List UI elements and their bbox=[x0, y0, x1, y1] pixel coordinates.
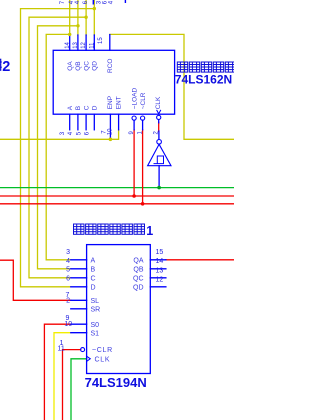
reg pin 6 D stub bbox=[71, 286, 87, 288]
wire vertical to top edge pin QC bbox=[85, 0, 87, 35]
svg-text:QB: QB bbox=[75, 61, 82, 70]
reg pin 12 QD stub bbox=[150, 286, 166, 288]
reg pin 11 CLK marker bbox=[87, 356, 91, 361]
op U2 74LS162N body bbox=[53, 50, 174, 114]
svg-text:74LS162N: 74LS162N bbox=[175, 72, 232, 86]
wire S0 net (red) bbox=[44, 324, 70, 420]
counter pin labels (rotated) bbox=[67, 59, 162, 111]
wire ENP/ENT enable net (yellow) bbox=[0, 138, 110, 140]
svg-text:A: A bbox=[67, 105, 74, 110]
wire RCO net (yellow) bbox=[110, 34, 234, 139]
bus red line 2 bbox=[0, 203, 234, 205]
wire reg ~CLR net (red) bbox=[63, 350, 81, 420]
svg-text:2: 2 bbox=[2, 59, 10, 75]
wire SL net (red) bbox=[0, 260, 71, 300]
svg-text:5: 5 bbox=[66, 266, 70, 273]
reg pin 7 SL stub bbox=[71, 299, 87, 301]
svg-text:S1: S1 bbox=[91, 330, 100, 337]
op U1 74LS194N body bbox=[87, 245, 151, 374]
reg pin 4 B stub bbox=[71, 268, 87, 270]
pin 9 stub bbox=[133, 120, 135, 130]
label fragment left edge (part of off-screen component label) bbox=[0, 59, 10, 75]
svg-text:13: 13 bbox=[73, 41, 79, 48]
pin 2 stub bbox=[158, 120, 160, 123]
wire QB-B net bbox=[38, 26, 79, 269]
pin 11 stub bbox=[93, 35, 95, 50]
svg-text:10: 10 bbox=[64, 321, 72, 328]
svg-text:1: 1 bbox=[146, 224, 153, 238]
clock source bubble bbox=[157, 140, 162, 145]
svg-text:12: 12 bbox=[81, 41, 87, 48]
pin 2 CLK marker bbox=[157, 110, 161, 114]
pin 4 stub bbox=[77, 114, 79, 130]
svg-text:11: 11 bbox=[89, 42, 95, 49]
wire QA output net (red) bbox=[166, 259, 234, 261]
wire vertical to top edge pin QA bbox=[69, 0, 71, 35]
wire vertical to top edge pin QD bbox=[93, 0, 95, 35]
reg pin 14 QB stub bbox=[150, 268, 166, 270]
svg-text:A: A bbox=[91, 257, 96, 264]
bus red line 1 bbox=[0, 195, 234, 197]
reg pin 3 A stub bbox=[71, 259, 87, 261]
counter pin numbers (rotated) bbox=[60, 37, 159, 136]
pin 15 RCO stub bbox=[109, 35, 111, 51]
reg pin 13 QC stub bbox=[150, 277, 166, 279]
reg pin 10 S1 stub bbox=[71, 332, 87, 334]
svg-text:SL: SL bbox=[91, 298, 100, 305]
svg-text:12: 12 bbox=[156, 276, 164, 283]
wire QD-D net (yellow, pin11 to reg D) bbox=[21, 9, 95, 287]
pin 14 stub bbox=[69, 35, 71, 50]
pin 1 stub bbox=[142, 120, 144, 130]
junction ~LOAD/red bus 1 bbox=[132, 194, 136, 198]
pin 6 stub bbox=[93, 114, 95, 130]
wire CLK to clock source (red) bbox=[158, 122, 160, 131]
svg-text:D: D bbox=[92, 105, 99, 110]
svg-text:2: 2 bbox=[66, 298, 70, 305]
junction clock/green bus bbox=[157, 186, 161, 190]
pin 13 stub bbox=[77, 35, 79, 50]
register pin numbers bbox=[58, 249, 164, 353]
top edge stub A bbox=[93, 0, 95, 5]
svg-text:~LOAD: ~LOAD bbox=[132, 87, 139, 109]
pin 10 ENT stub bbox=[118, 114, 120, 130]
reg pin 5 C stub bbox=[71, 277, 87, 279]
svg-text:3: 3 bbox=[66, 249, 70, 256]
svg-text:15: 15 bbox=[98, 37, 104, 44]
svg-text:D: D bbox=[91, 284, 96, 291]
svg-text:C: C bbox=[83, 105, 90, 110]
svg-text:14: 14 bbox=[65, 41, 71, 48]
wire ~LOAD drop (red) bbox=[133, 130, 135, 196]
svg-text:13: 13 bbox=[156, 267, 164, 274]
pin 7 ENP stub bbox=[109, 114, 111, 138]
svg-text:CLK: CLK bbox=[95, 356, 111, 363]
svg-text:SR: SR bbox=[91, 306, 101, 313]
clock source ground stem bbox=[158, 166, 160, 188]
svg-text:QC: QC bbox=[83, 61, 90, 71]
wire S1 net (yellow) bbox=[54, 333, 71, 420]
svg-text:~CLR: ~CLR bbox=[140, 92, 147, 109]
svg-text:B: B bbox=[91, 266, 96, 273]
wire QA-A net bbox=[46, 34, 71, 259]
svg-text:74LS194N: 74LS194N bbox=[85, 375, 147, 390]
svg-text:6: 6 bbox=[66, 276, 70, 283]
svg-text:RCO: RCO bbox=[107, 59, 114, 73]
reg pin 2 SR stub bbox=[71, 308, 87, 310]
svg-text:10: 10 bbox=[108, 128, 114, 135]
pin 2 CLK bubble bbox=[157, 115, 161, 119]
junction QB net bbox=[76, 24, 79, 27]
svg-text:14: 14 bbox=[156, 258, 164, 265]
svg-text:ENT: ENT bbox=[115, 96, 122, 109]
junction QA net bbox=[68, 33, 71, 36]
junction ~CLR/red bus 2 bbox=[141, 202, 145, 206]
top edge pin numbers bbox=[60, 0, 115, 4]
register pin labels bbox=[91, 257, 144, 363]
svg-text:~CLR: ~CLR bbox=[92, 347, 113, 354]
junction QD net bbox=[93, 7, 96, 10]
reg pin 9 S0 stub bbox=[71, 323, 87, 325]
wire ~CLR drop (red) bbox=[142, 130, 144, 204]
label U2 title Chinese (clipped at right edge) bbox=[177, 62, 247, 72]
reg pin 1 ~CLR bubble bbox=[81, 348, 85, 352]
wire QC-C net bbox=[29, 17, 86, 278]
svg-text:4: 4 bbox=[66, 258, 70, 265]
label U1 title Chinese bbox=[74, 224, 154, 238]
svg-text:CLK: CLK bbox=[155, 96, 162, 109]
svg-text:S0: S0 bbox=[91, 322, 100, 329]
pin 5 stub bbox=[85, 114, 87, 130]
svg-text:QB: QB bbox=[133, 266, 143, 273]
pin 1 ~CLR bubble bbox=[141, 116, 145, 120]
pin 12 stub bbox=[85, 35, 87, 50]
svg-text:C: C bbox=[91, 275, 96, 282]
svg-text:ENP: ENP bbox=[107, 96, 114, 109]
svg-text:QA: QA bbox=[67, 61, 74, 71]
pin 3 stub bbox=[69, 114, 71, 130]
wire ENP drop bbox=[109, 138, 111, 140]
svg-text:QA: QA bbox=[133, 257, 143, 264]
svg-text:QC: QC bbox=[133, 275, 144, 282]
svg-text:15: 15 bbox=[156, 249, 164, 256]
pin 9 ~LOAD bubble bbox=[132, 116, 136, 120]
svg-text:QD: QD bbox=[133, 284, 144, 291]
svg-text:B: B bbox=[75, 106, 82, 110]
wire vertical to top edge pin QB bbox=[77, 0, 79, 35]
clock source waveform glyph bbox=[154, 156, 164, 164]
bus green line bbox=[0, 187, 234, 189]
junction ENP/ENT bbox=[109, 138, 113, 142]
top edge stub B bbox=[125, 0, 126, 3]
clock source V1 triangle bbox=[148, 144, 171, 165]
wire ENT corner bbox=[110, 130, 118, 140]
junction QC net bbox=[84, 16, 87, 19]
svg-text:11: 11 bbox=[58, 346, 65, 353]
svg-text:QD: QD bbox=[92, 61, 99, 71]
clock source stub bbox=[158, 131, 160, 139]
reg pin 15 QA stub bbox=[150, 259, 166, 261]
wire reg CLK net (green) bbox=[71, 359, 87, 420]
